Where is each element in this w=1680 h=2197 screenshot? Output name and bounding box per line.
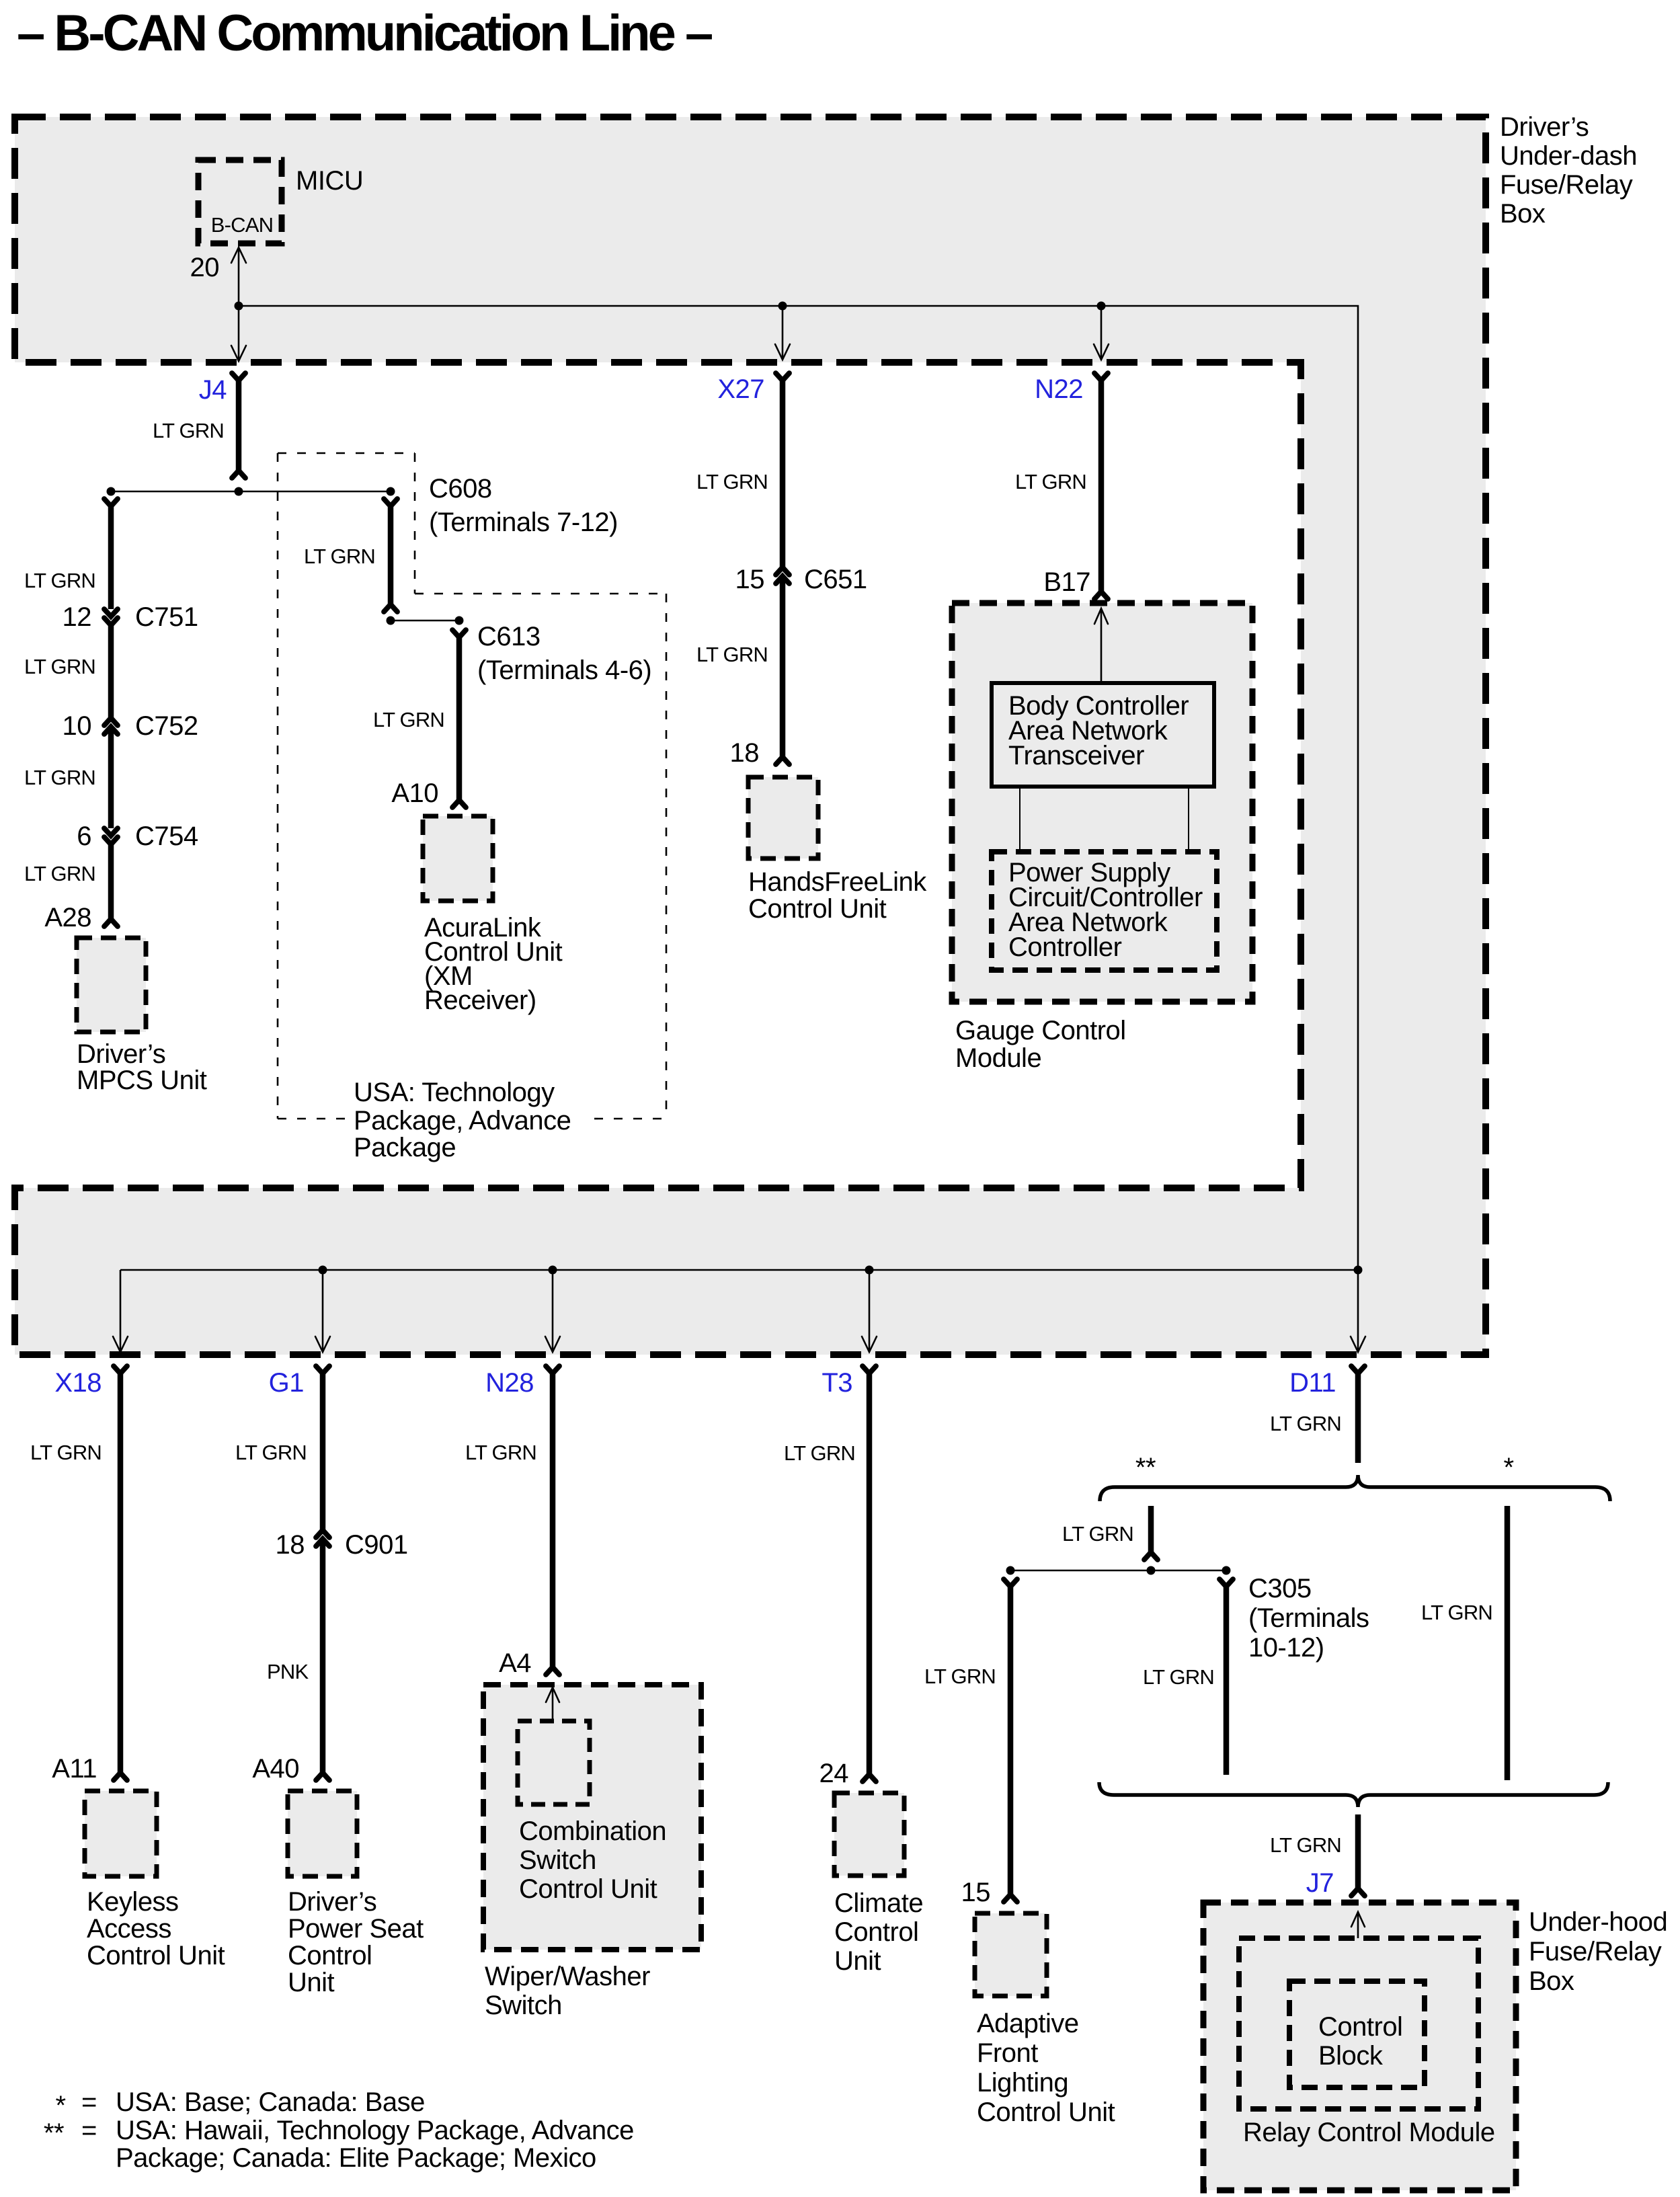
connector fork left branch top — [104, 499, 118, 506]
svg-text:Under-hood: Under-hood — [1529, 1907, 1667, 1937]
connector fork ** stub — [1144, 1552, 1158, 1560]
svg-text:LT GRN: LT GRN — [24, 766, 95, 789]
Wiper/Washer Switch box — [483, 1685, 701, 1950]
node: junction X27 — [778, 302, 787, 311]
wire LT GRN C752 to C754 — [108, 727, 114, 828]
svg-text:Control: Control — [834, 1917, 918, 1947]
node: junction G1 — [319, 1266, 327, 1275]
wire N22 LT GRN — [1098, 381, 1105, 592]
brace: D11 splits to option ** and option * — [1100, 1475, 1610, 1501]
svg-text:Driver’s: Driver’s — [288, 1887, 376, 1917]
svg-text:C608: C608 — [429, 474, 492, 504]
svg-text:USA: Hawaii, Technology Packag: USA: Hawaii, Technology Package, Advance — [116, 2116, 634, 2145]
wire: arrow J7 into control block — [1357, 1912, 1359, 1981]
connector J4 — [232, 373, 245, 381]
HandsFreeLink Control Unit box — [748, 777, 818, 858]
connector fork AFS drop — [1004, 1579, 1017, 1587]
svg-text:Adaptive: Adaptive — [977, 2009, 1079, 2038]
node: junction center — [1147, 1566, 1156, 1575]
connector C752 pin 10 — [104, 718, 118, 725]
wire: transceiver to controller right — [1188, 787, 1189, 852]
svg-text:MPCS Unit: MPCS Unit — [77, 1066, 207, 1095]
svg-text:20: 20 — [190, 253, 220, 282]
svg-text:J7: J7 — [1306, 1868, 1334, 1898]
svg-text:LT GRN: LT GRN — [1062, 1522, 1133, 1546]
svg-text:10-12): 10-12) — [1248, 1633, 1324, 1663]
wire: arrow drop G1 — [322, 1270, 324, 1352]
node: junction below J4 — [235, 487, 243, 496]
wire X18 LT GRN — [118, 1373, 124, 1773]
Under-hood Fuse/Relay Box — [1203, 1903, 1516, 2190]
connector C613 — [452, 630, 466, 637]
svg-text:18: 18 — [276, 1530, 305, 1560]
svg-text:Fuse/Relay: Fuse/Relay — [1529, 1937, 1662, 1966]
svg-text:Access: Access — [87, 1914, 171, 1944]
Power Supply Circuit/Controller Area Network Controller box — [992, 852, 1217, 970]
svg-text:Transceiver: Transceiver — [1008, 741, 1144, 770]
Control Block box — [1289, 1981, 1425, 2087]
svg-text:LT GRN: LT GRN — [304, 545, 375, 568]
node: junction N28 — [549, 1266, 557, 1275]
connector pin A4 — [546, 1667, 559, 1675]
wire T3 LT GRN — [867, 1373, 873, 1774]
wire: MICU pin 20 double-arrow to bus — [238, 247, 240, 361]
svg-text:PNK: PNK — [267, 1660, 309, 1683]
connector N22 — [1094, 373, 1108, 381]
svg-text:Receiver): Receiver) — [424, 986, 536, 1015]
wire: arrow drop T3 — [869, 1270, 871, 1352]
svg-text:Unit: Unit — [834, 1946, 881, 1976]
svg-text:Package: Package — [354, 1133, 456, 1162]
wire: arrow drop X18 — [120, 1270, 122, 1352]
svg-text:15: 15 — [961, 1878, 991, 1907]
svg-text:LT GRN: LT GRN — [784, 1441, 855, 1465]
svg-text:USA: Base; Canada: Base: USA: Base; Canada: Base — [116, 2087, 425, 2117]
svg-text:X27: X27 — [717, 374, 764, 404]
svg-text:Relay Control Module: Relay Control Module — [1243, 2118, 1495, 2147]
svg-text:D11: D11 — [1289, 1368, 1336, 1398]
svg-text:6: 6 — [77, 822, 91, 851]
svg-text:LT GRN: LT GRN — [30, 1441, 102, 1464]
wire J7 LT GRN — [1355, 1814, 1361, 1888]
svg-text:Wiper/Washer: Wiper/Washer — [485, 1962, 650, 1991]
svg-text:LT GRN: LT GRN — [696, 470, 768, 493]
node: junction below C608 — [387, 616, 395, 625]
wire: link to C613 — [391, 620, 459, 622]
wire: arrow drop N28 — [552, 1270, 554, 1352]
svg-text:LT GRN: LT GRN — [373, 708, 444, 731]
svg-text:C305: C305 — [1248, 1574, 1312, 1603]
wire X27 LT GRN upper — [780, 381, 786, 567]
Driver's Power Seat Control Unit box — [288, 1791, 357, 1876]
node: junction right C305 — [1222, 1566, 1231, 1575]
node: junction left — [1006, 1566, 1015, 1575]
wire LT GRN C754 to A28 — [108, 844, 114, 919]
node: right branch junction — [387, 487, 395, 496]
svg-text:18: 18 — [730, 738, 760, 768]
connector C751 pin 12 — [104, 609, 118, 616]
wire: arrow drop to N22 — [1101, 306, 1103, 360]
svg-text:Box: Box — [1529, 1966, 1574, 1996]
svg-text:LT GRN: LT GRN — [1015, 470, 1086, 493]
svg-text:Climate: Climate — [834, 1888, 923, 1918]
svg-text:J4: J4 — [199, 375, 227, 405]
wire LT GRN to C608 — [388, 506, 394, 604]
node: junction at C613 — [455, 616, 464, 625]
svg-text:MICU: MICU — [296, 166, 363, 196]
MICU (B-CAN) connector box — [198, 160, 282, 243]
svg-text:Driver’s: Driver’s — [1500, 112, 1589, 142]
svg-text:C754: C754 — [135, 822, 198, 851]
node: left branch junction — [107, 487, 116, 496]
svg-text:24: 24 — [819, 1759, 849, 1788]
svg-text:Under-dash: Under-dash — [1500, 141, 1637, 171]
svg-text:Keyless: Keyless — [87, 1887, 179, 1917]
svg-text:**: ** — [44, 2118, 64, 2148]
svg-text:Combination: Combination — [519, 1816, 666, 1846]
Climate Control Unit box — [834, 1793, 904, 1876]
wire LT GRN C751 to C752 — [108, 625, 114, 718]
wire LT GRN C613 to A10 — [456, 637, 463, 800]
svg-text:LT GRN: LT GRN — [1143, 1665, 1214, 1689]
Driver's MPCS Unit box — [77, 938, 146, 1032]
svg-text:HandsFreeLink: HandsFreeLink — [748, 867, 927, 897]
connector pin B17 — [1094, 592, 1108, 599]
svg-text:Box: Box — [1500, 199, 1546, 229]
svg-text:C752: C752 — [135, 711, 198, 741]
wire: arrow drop to X27 — [782, 306, 784, 360]
svg-text:Controller: Controller — [1008, 932, 1122, 962]
connector C901 pin 18 — [316, 1530, 329, 1537]
svg-text:USA: Technology: USA: Technology — [354, 1078, 555, 1107]
svg-text:(Terminals 4-6): (Terminals 4-6) — [477, 655, 651, 685]
connector G1 — [316, 1366, 329, 1373]
wire ** stub LT GRN — [1148, 1506, 1154, 1552]
svg-text:Control Unit: Control Unit — [748, 894, 887, 924]
connector pin A11 — [114, 1773, 127, 1780]
connector D11 — [1351, 1366, 1365, 1373]
wire J4 LT GRN — [236, 381, 242, 471]
svg-text:A11: A11 — [52, 1754, 97, 1784]
wire X27 LT GRN lower — [780, 576, 786, 757]
svg-text:10: 10 — [63, 711, 92, 741]
node: junction T3 — [865, 1266, 874, 1275]
svg-text:LT GRN: LT GRN — [235, 1441, 307, 1464]
connector pin A10 — [452, 800, 466, 807]
connector pin A40 — [316, 1773, 329, 1780]
svg-text:LT GRN: LT GRN — [153, 419, 224, 442]
connector fork J7 — [1351, 1888, 1365, 1896]
Adaptive Front Lighting Control Unit box — [975, 1913, 1047, 1996]
svg-text:LT GRN: LT GRN — [24, 862, 95, 885]
svg-text:**: ** — [1135, 1453, 1156, 1482]
svg-text:A10: A10 — [391, 778, 438, 808]
Relay Control Module box — [1239, 1938, 1478, 2109]
wire G1 LT GRN — [320, 1373, 326, 1530]
wire: C305 link line — [1010, 1570, 1226, 1572]
svg-text:Control: Control — [288, 1941, 372, 1970]
svg-text:Driver’s: Driver’s — [77, 1039, 165, 1069]
svg-text:Front: Front — [977, 2038, 1038, 2068]
svg-text:Control: Control — [1318, 2012, 1402, 2042]
wire LT GRN to C751 — [108, 506, 114, 609]
wire D11 LT GRN — [1355, 1373, 1361, 1463]
svg-text:Gauge Control: Gauge Control — [955, 1016, 1126, 1045]
svg-text:=: = — [81, 2087, 97, 2117]
Keyless Access Control Unit box — [85, 1791, 157, 1876]
svg-text:*: * — [1503, 1453, 1513, 1482]
svg-text:Switch: Switch — [485, 1991, 562, 2020]
wire LT GRN to AFS unit — [1008, 1587, 1014, 1894]
connector C651 pin 15 — [776, 567, 789, 575]
svg-text:C901: C901 — [345, 1530, 408, 1560]
svg-text:LT GRN: LT GRN — [1421, 1601, 1492, 1624]
AcuraLink Control Unit (XM Receiver) box — [423, 816, 493, 901]
Combination Switch Control Unit box — [518, 1721, 590, 1804]
connector N28 — [546, 1366, 559, 1373]
svg-text:N28: N28 — [485, 1368, 534, 1398]
connector pin A28 — [104, 919, 118, 926]
connector X27 — [776, 373, 789, 381]
svg-text:Switch: Switch — [519, 1845, 596, 1875]
svg-text:T3: T3 — [822, 1368, 852, 1398]
svg-text:– B-CAN Communication Line –: – B-CAN Communication Line – — [17, 5, 712, 62]
svg-text:12: 12 — [63, 602, 92, 632]
Gauge Control Module box — [952, 603, 1252, 1002]
svg-text:LT GRN: LT GRN — [24, 569, 95, 592]
wire: arrow into combination switch — [552, 1687, 554, 1721]
svg-text:Package, Advance: Package, Advance — [354, 1106, 571, 1135]
svg-text:Power Seat: Power Seat — [288, 1914, 424, 1944]
svg-text:(Terminals: (Terminals — [1248, 1603, 1369, 1633]
svg-text:Unit: Unit — [288, 1968, 335, 1997]
svg-text:A40: A40 — [252, 1754, 299, 1784]
connector pin 15 AFS — [1004, 1894, 1017, 1902]
wire * option LT GRN — [1505, 1506, 1511, 1780]
svg-text:G1: G1 — [269, 1368, 304, 1398]
Body Controller Area Network Transceiver box — [992, 683, 1214, 787]
connector C754 pin 6 — [104, 828, 118, 836]
svg-text:Control Unit: Control Unit — [519, 1874, 657, 1904]
wire: transceiver to controller left — [1019, 787, 1021, 852]
svg-text:*: * — [55, 2091, 65, 2120]
connector pin 24 — [863, 1774, 876, 1782]
svg-text:LT GRN: LT GRN — [924, 1665, 996, 1688]
svg-text:LT GRN: LT GRN — [696, 643, 768, 666]
svg-text:=: = — [81, 2116, 97, 2145]
wire: branch bus below J4 — [111, 491, 391, 493]
wire: arrow drop D11 — [1357, 1270, 1359, 1352]
svg-text:Control Unit: Control Unit — [87, 1941, 225, 1970]
svg-text:Fuse/Relay: Fuse/Relay — [1500, 170, 1633, 200]
svg-text:B-CAN: B-CAN — [211, 213, 273, 237]
connector C305 — [1219, 1579, 1233, 1587]
svg-text:15: 15 — [735, 565, 765, 594]
Driver's Under-dash Fuse/Relay Box (C-shaped gray dashed enclosure) — [15, 117, 1486, 1355]
connector fork C608 branch top — [384, 499, 397, 506]
wire G1 PNK — [320, 1539, 326, 1773]
svg-text:(Terminals 7-12): (Terminals 7-12) — [429, 508, 618, 537]
svg-text:C751: C751 — [135, 602, 198, 632]
svg-text:Lighting: Lighting — [977, 2068, 1068, 2098]
connector T3 — [863, 1366, 876, 1373]
node: junction N22 — [1097, 302, 1106, 311]
brace: options merge to J7 — [1099, 1782, 1608, 1807]
wire N28 LT GRN — [550, 1373, 556, 1667]
wire: lower band bus — [120, 1269, 1358, 1271]
svg-text:Block: Block — [1318, 2041, 1384, 2071]
node: junction D11 — [1354, 1266, 1363, 1275]
node: junction at J4 column on top bus — [235, 302, 243, 311]
wire: top B-CAN bus — [239, 306, 1358, 1270]
svg-text:C651: C651 — [804, 565, 867, 594]
svg-text:A28: A28 — [44, 903, 91, 932]
wire LT GRN below C305 — [1224, 1587, 1230, 1775]
svg-text:LT GRN: LT GRN — [465, 1441, 536, 1464]
svg-text:Module: Module — [955, 1043, 1041, 1073]
connector pin 18 HandsFreeLink — [776, 757, 789, 764]
connector X18 — [114, 1366, 127, 1373]
svg-text:X18: X18 — [54, 1368, 102, 1398]
svg-text:N22: N22 — [1035, 374, 1083, 404]
label Driver's Under-dash Fuse/Relay Box — [1500, 112, 1637, 229]
svg-text:LT GRN: LT GRN — [1270, 1412, 1341, 1435]
svg-text:C613: C613 — [477, 622, 541, 651]
svg-text:LT GRN: LT GRN — [1270, 1833, 1341, 1857]
svg-text:Control Unit: Control Unit — [977, 2098, 1115, 2127]
svg-text:A4: A4 — [499, 1648, 531, 1678]
svg-text:B17: B17 — [1043, 567, 1090, 597]
svg-text:Package; Canada: Elite Package: Package; Canada: Elite Package; Mexico — [116, 2143, 596, 2173]
USA Technology/Advance Package dashed option region — [278, 453, 666, 1119]
svg-text:LT GRN: LT GRN — [24, 655, 95, 678]
wire: arrow from transceiver to B17 — [1101, 608, 1103, 683]
